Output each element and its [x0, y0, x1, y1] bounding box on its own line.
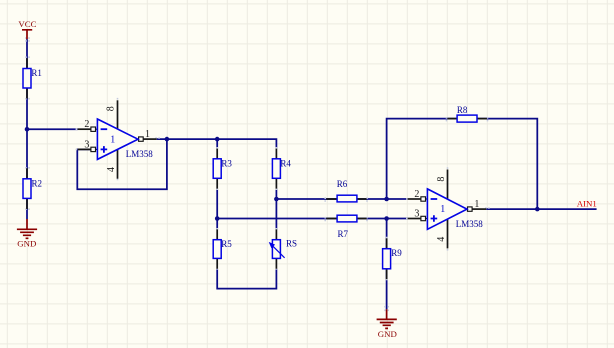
- R6 pins: [326, 198, 366, 200]
- wire R8 feedback loop: [387, 119, 538, 210]
- U1 pin 4 lead: [117, 149, 119, 178]
- U2 pin 4 lead: [447, 219, 449, 248]
- ground right: [377, 309, 397, 328]
- svg-text:8: 8: [106, 106, 117, 111]
- svg-text:R7: R7: [338, 229, 349, 239]
- svg-text:3: 3: [414, 209, 419, 220]
- resistor RS adjustable: [272, 240, 280, 259]
- svg-text:LM358: LM358: [456, 219, 484, 229]
- resistor R5: [213, 240, 221, 259]
- U2 pin 2 square: [421, 197, 426, 201]
- wire row B node to R7 to U2 pin3: [217, 218, 408, 220]
- wire R4 bottom to node A: [275, 189, 277, 199]
- U2 triangle: [427, 189, 467, 229]
- R7 pins: [326, 218, 366, 220]
- svg-text:R6: R6: [337, 179, 348, 189]
- R3 pins: [216, 149, 218, 189]
- hotspots U2: [406, 167, 490, 250]
- node U2 output R8 return: [535, 207, 540, 212]
- U2 minus: [431, 198, 438, 200]
- svg-text:1: 1: [145, 129, 150, 140]
- svg-text:4: 4: [436, 237, 447, 242]
- svg-text:GND: GND: [17, 239, 36, 249]
- U2 pin 1 lead: [472, 208, 486, 210]
- hotspots left rail: [25, 37, 30, 41]
- R9 pins: [386, 238, 388, 279]
- svg-text:R4: R4: [280, 158, 291, 168]
- wire VCC rail down left side: [26, 39, 28, 219]
- ground left: [17, 219, 37, 238]
- svg-text:R2: R2: [32, 178, 43, 188]
- node R1/R2 divider: [25, 127, 30, 132]
- resistor R4: [272, 159, 280, 179]
- U2 pin 2 lead: [408, 198, 421, 200]
- svg-text:R3: R3: [221, 158, 232, 168]
- svg-text:GND: GND: [378, 329, 397, 339]
- resistor R8: [457, 115, 477, 122]
- node R3/R5 mid: [215, 216, 220, 221]
- wire U1 output to bridge top corner: [157, 139, 277, 149]
- svg-text:2: 2: [414, 189, 419, 200]
- hotspots R3 R4: [216, 147, 277, 190]
- node R4/RS mid: [274, 197, 279, 202]
- U1 pin 2 lead: [78, 128, 91, 130]
- hotspots R5 RS: [216, 228, 277, 270]
- svg-text:AIN1: AIN1: [577, 198, 597, 208]
- RS arrow head: [269, 242, 275, 248]
- resistor R1: [23, 69, 31, 89]
- U1 minus: [101, 128, 108, 130]
- wire bridge bottom R5 to RS: [217, 269, 276, 289]
- resistor R9: [383, 249, 391, 269]
- R2 pins: [26, 168, 28, 209]
- svg-text:R8: R8: [457, 105, 468, 115]
- node U1 output feedback: [165, 137, 170, 142]
- U1 pin 1 square: [139, 137, 144, 141]
- R4 pins: [275, 149, 277, 189]
- svg-text:1: 1: [110, 134, 115, 145]
- wire node A down to RS: [275, 199, 277, 230]
- hotspots R9 and GND: [384, 237, 389, 311]
- svg-text:LM358: LM358: [126, 149, 154, 159]
- wire divider node to U1 pin2: [27, 128, 78, 130]
- node bridge top left: [215, 137, 220, 142]
- R5 pins: [216, 229, 218, 268]
- U1 plus: [101, 146, 108, 153]
- wire bridge top to R3: [216, 139, 218, 149]
- U2 pin 3 lead: [408, 218, 421, 220]
- U1 pin 2 square: [91, 127, 96, 131]
- wire R3 bottom to node B and on to R5: [216, 189, 218, 230]
- resistor R3: [213, 159, 221, 179]
- R8 pins: [448, 118, 487, 120]
- U2 pin 1 square: [468, 207, 473, 211]
- wire U1 feedback output to pin3: [77, 139, 167, 189]
- hotspots R8: [446, 117, 489, 121]
- svg-text:R5: R5: [221, 239, 232, 249]
- wire row A node to R6 to U2 pin2: [276, 198, 407, 200]
- RS wiper arrow shaft: [271, 244, 285, 257]
- svg-text:RS: RS: [286, 239, 297, 249]
- resistor R6: [337, 195, 357, 202]
- resistor R2: [23, 179, 31, 199]
- svg-text:2: 2: [84, 119, 89, 130]
- RS pins: [275, 229, 277, 268]
- U1 pin 1 lead: [143, 138, 157, 140]
- pale hot-spot marks at pin ends: [25, 37, 490, 311]
- node row B R9 tap: [384, 216, 389, 221]
- svg-text:VCC: VCC: [18, 19, 36, 29]
- U1 pin 3 square: [91, 147, 96, 151]
- svg-text:8: 8: [436, 177, 447, 182]
- junction dots: [25, 127, 540, 221]
- wire U2 output to AIN1: [486, 208, 596, 210]
- svg-text:R9: R9: [391, 248, 402, 258]
- op-amp input/output pin squares: [91, 127, 472, 221]
- U2 pin 8 lead: [447, 170, 449, 199]
- resistor R7: [337, 215, 357, 222]
- VCC power bar: [22, 30, 32, 39]
- U2 plus: [431, 215, 438, 222]
- svg-text:4: 4: [106, 167, 117, 172]
- svg-text:3: 3: [84, 139, 89, 150]
- hotspots R6 R7: [324, 197, 367, 201]
- U2 pin 3 square: [421, 216, 426, 220]
- wire R9 branch down to ground: [386, 219, 388, 310]
- hotspots U1: [76, 98, 160, 180]
- svg-text:1: 1: [474, 199, 479, 210]
- U1 pin 3 lead: [78, 148, 91, 150]
- node row A R8 tap: [384, 197, 389, 202]
- R1 pins: [26, 58, 28, 98]
- svg-text:1: 1: [440, 204, 445, 215]
- U1 triangle: [97, 119, 138, 159]
- svg-text:R1: R1: [31, 68, 42, 78]
- U1 pin 8 lead: [117, 100, 119, 129]
